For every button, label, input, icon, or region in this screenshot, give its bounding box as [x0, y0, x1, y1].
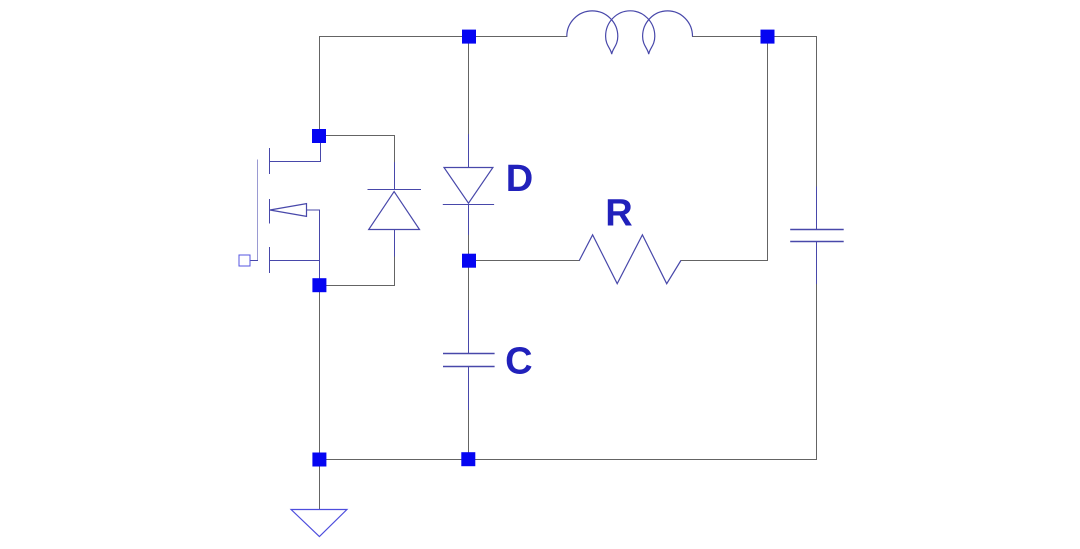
wire right vertical upper to output capacitor	[816, 37, 818, 188]
svg-text:D: D	[506, 158, 533, 200]
body stub	[307, 209, 320, 211]
anode triangle	[444, 168, 493, 204]
cathode bar	[368, 189, 421, 191]
cathode pin	[468, 205, 470, 235]
svg-text:C: C	[505, 341, 532, 383]
wire diode D top lead from node N2	[468, 43, 470, 135]
bottom pin	[816, 242, 818, 284]
wire from node N3 down to resistor right end	[681, 43, 768, 261]
bottom pin	[468, 367, 470, 410]
node N2 switch top	[462, 30, 476, 44]
wire capacitor C bottom lead to bottom rail	[468, 410, 470, 460]
wire body diode bottom to node N5	[326, 256, 395, 285]
wire top horizontal left of inductor	[320, 36, 567, 38]
source/body vertical to node N5	[319, 210, 321, 279]
wire capacitor C top lead from node N4	[468, 267, 470, 311]
bottom plate	[791, 241, 843, 243]
anode pin	[394, 230, 396, 257]
ground	[291, 510, 347, 537]
wire node N6 down to ground	[319, 460, 321, 510]
node N5 MOSFET source	[312, 278, 326, 292]
output capacitor	[791, 187, 843, 284]
top pin	[468, 311, 470, 354]
bottom plate	[444, 366, 494, 368]
body arrow	[270, 204, 307, 217]
node N6 ground rail left	[312, 453, 326, 467]
channel bar middle	[269, 200, 271, 224]
body diode of Q1	[368, 163, 421, 257]
top plate	[791, 229, 843, 231]
mosfet Q1	[239, 143, 321, 279]
wire right vertical lower and bottom rail	[320, 284, 817, 460]
wire diode D bottom lead to node N4	[468, 234, 470, 254]
wire node N5 down to node N6	[319, 286, 321, 460]
channel bar bottom	[269, 248, 271, 273]
wire resistor left lead from node N4	[476, 260, 580, 262]
node N3 inductor output	[761, 30, 775, 44]
gate terminal square	[239, 255, 250, 266]
inductor L	[567, 11, 693, 54]
cathode pin	[394, 163, 396, 190]
channel bar top	[269, 149, 271, 174]
anode pin	[468, 135, 470, 168]
gate line	[257, 160, 259, 261]
capacitor C	[444, 311, 494, 410]
wire top-left vertical	[319, 37, 321, 136]
wire top horizontal right of inductor	[693, 36, 817, 38]
gate lead	[245, 260, 258, 262]
top pin	[816, 187, 818, 230]
wire node N1 to body diode top	[320, 136, 395, 163]
node N7 capacitor C bottom	[461, 452, 475, 466]
source stub	[270, 260, 320, 262]
drain pin and stub	[270, 143, 321, 162]
diode D	[443, 135, 493, 235]
cathode bar	[443, 204, 493, 206]
top plate	[444, 353, 494, 355]
node N1 MOSFET drain	[312, 129, 326, 143]
node N4 D cathode / RC junction	[462, 254, 476, 268]
svg-text:R: R	[605, 193, 632, 235]
resistor R	[579, 235, 681, 284]
anode triangle	[369, 192, 420, 230]
